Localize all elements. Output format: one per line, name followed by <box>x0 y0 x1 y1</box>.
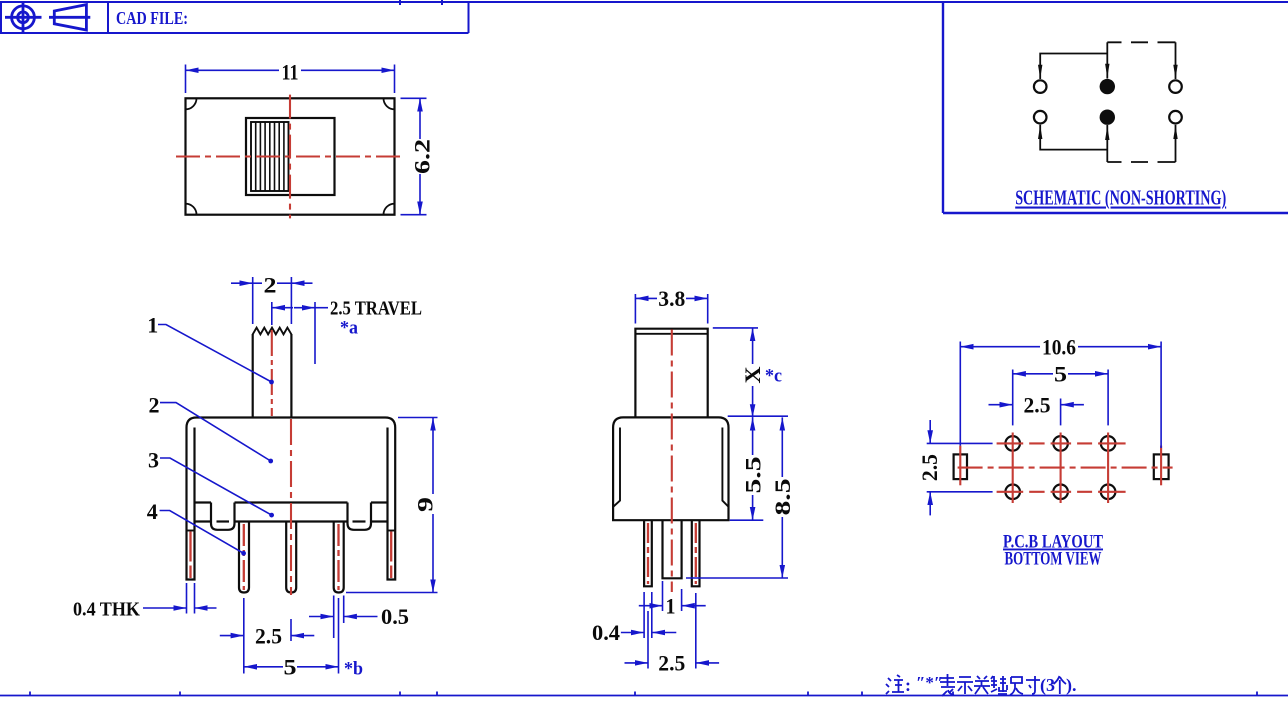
dim 9 arrows <box>432 418 434 495</box>
side main centerline red <box>671 330 673 593</box>
dim 5.5 arrows <box>752 417 754 455</box>
right mounting tab <box>388 531 396 580</box>
centerline horizontal (red) <box>176 155 405 157</box>
body side left inner edge <box>614 428 621 507</box>
svg-text:).: ). <box>1066 675 1077 696</box>
terminal 5 common filled bottom-center <box>1100 110 1115 125</box>
dim 0.5 ext lines <box>334 596 344 639</box>
svg-text:0.5: 0.5 <box>381 604 409 629</box>
top view body rectangle <box>186 98 395 214</box>
side pin center wide <box>663 520 682 578</box>
dim 2 arrows (outside) <box>231 282 253 284</box>
svg-text:*a: *a <box>340 318 358 339</box>
hole r1c2 <box>1053 436 1068 451</box>
wire top solid pole1 <box>1040 54 1107 80</box>
knob serration hatch <box>256 122 284 191</box>
dim 0.4 arrows <box>621 632 644 634</box>
wire top dashed alternate throw <box>1107 41 1175 43</box>
frame zone ticks bottom <box>30 692 1257 696</box>
wire bottom dashed alternate throw <box>1107 161 1175 163</box>
dim X ext line <box>713 327 758 329</box>
red col line c1 <box>1012 433 1014 504</box>
pin 3 red centerline <box>337 524 339 590</box>
base plate top edge segments <box>195 501 388 503</box>
page top border <box>0 1 1288 3</box>
svg-text:2.5: 2.5 <box>1024 393 1051 418</box>
svg-text:2.5: 2.5 <box>917 454 942 481</box>
frame zone tick top B <box>441 0 443 5</box>
svg-text:1: 1 <box>147 313 158 338</box>
side pin left <box>644 520 652 586</box>
dim 11 extension lines <box>186 65 395 94</box>
right notch U <box>348 503 372 530</box>
arrow into terminal 3 <box>1173 65 1177 79</box>
dim 3.8 ext lines <box>635 294 707 324</box>
dim 8.5 arrows <box>781 417 783 477</box>
knob hatched cap <box>251 122 289 191</box>
hole r2c2 <box>1053 485 1068 500</box>
svg-text:CAD FILE:: CAD FILE: <box>116 8 188 28</box>
dim 1 arrows <box>639 605 663 607</box>
stem side outline <box>635 329 707 418</box>
dim 6.2 extension lines <box>401 98 427 214</box>
dim 0.4 THK ext lines <box>187 583 195 614</box>
cone frustum symbol <box>49 5 90 30</box>
dim 2 ext lines <box>253 277 292 324</box>
schematic frame border <box>943 2 1288 213</box>
dim 2.5 travel leader tail <box>315 307 328 309</box>
dim 2.5 vertical ref lines <box>927 443 993 491</box>
corner arc TL <box>186 98 197 109</box>
base plate bottom edge segments <box>195 520 388 522</box>
body right wall inner line <box>386 428 388 531</box>
body side right inner edge <box>722 428 728 507</box>
svg-text:3: 3 <box>148 448 159 473</box>
right tab red centerline <box>390 532 392 579</box>
title block box <box>0 2 469 33</box>
red center axis <box>958 467 1173 469</box>
callout 2 leader <box>160 403 271 461</box>
dim 9 ext lines <box>346 418 438 593</box>
callout 4 leader <box>160 511 244 554</box>
svg-text:5: 5 <box>284 655 297 680</box>
arrow into terminal 6 <box>1173 125 1177 139</box>
char 注 <box>886 675 904 694</box>
third-angle projection symbol <box>5 2 42 32</box>
char 寸 <box>1026 676 1040 694</box>
dim 2.5 arrows <box>220 635 244 637</box>
knob opening rect <box>246 118 335 195</box>
slot right <box>1154 454 1169 479</box>
svg-text:*b: *b <box>344 659 363 680</box>
svg-text:″*″: ″*″ <box>916 673 943 692</box>
left tab step line <box>187 530 195 532</box>
dim X arrows <box>752 328 754 364</box>
svg-text:8.5: 8.5 <box>770 479 795 516</box>
stem knurled top (zigzag) <box>253 328 292 335</box>
svg-text:0.4 THK: 0.4 THK <box>73 599 140 621</box>
side pin right red centerline <box>695 523 697 584</box>
wire right vertical to terminal 6 <box>1175 125 1177 162</box>
svg-text:BOTTOM VIEW: BOTTOM VIEW <box>1005 549 1102 570</box>
dim 2.5 vertical arrows <box>929 420 931 443</box>
svg-text:X: X <box>740 366 765 383</box>
svg-text:2.5: 2.5 <box>255 624 282 649</box>
wire right vertical to terminal 3 <box>1175 42 1177 79</box>
svg-text:0.4: 0.4 <box>592 620 620 645</box>
dim 2 inner segment <box>277 282 291 284</box>
svg-text:6.2: 6.2 <box>410 139 435 174</box>
svg-text::: : <box>905 675 911 695</box>
pin 3 (right) front <box>334 522 344 593</box>
svg-text:3.8: 3.8 <box>658 286 685 311</box>
red slot axis right <box>1160 446 1162 486</box>
red col line c3 <box>1107 433 1109 504</box>
svg-text:2.5: 2.5 <box>658 651 685 676</box>
dim 5 <box>1013 373 1053 375</box>
dim 11 lines with arrows <box>186 69 280 71</box>
body side outline <box>613 417 728 520</box>
dim 0.4 ext lines <box>644 592 652 638</box>
dim 5 arrows <box>244 666 283 668</box>
dim 2.5 travel arrows <box>272 307 293 309</box>
svg-text:11: 11 <box>282 60 299 85</box>
callout 3 leader <box>160 458 272 515</box>
body bottom ext line <box>730 519 764 521</box>
left tab red centerline <box>189 532 191 579</box>
svg-text:2: 2 <box>264 273 277 298</box>
dim 2.5 ext line <box>1060 399 1062 426</box>
char 键 <box>991 676 1007 694</box>
svg-text:5: 5 <box>1054 362 1067 387</box>
right tab step line <box>388 530 396 532</box>
red slot axis left <box>959 446 961 486</box>
svg-text:4: 4 <box>147 499 158 524</box>
arrow into terminal 2 <box>1105 64 1109 78</box>
hole r1c3 <box>1101 436 1116 451</box>
dim 2.5 travel ext lines <box>272 302 315 364</box>
body outline with rounded shoulders <box>187 418 396 531</box>
centerline vertical (red) <box>289 95 291 219</box>
hole r2c1 <box>1005 485 1020 500</box>
dim 2.5 arrows <box>625 662 649 664</box>
svg-text:(3: (3 <box>1040 675 1055 696</box>
dim 0.5 arrows <box>309 616 334 618</box>
dim 6.2 lines with arrows <box>419 98 421 139</box>
pin 1 (left) front <box>239 522 249 593</box>
terminal 4 open circle bottom-left <box>1034 111 1047 124</box>
wire top center vertical <box>1106 42 1108 78</box>
slot left <box>954 454 967 479</box>
wire bottom center vertical <box>1106 125 1108 162</box>
body top ext line <box>728 415 788 417</box>
svg-text:2: 2 <box>149 393 160 418</box>
dim 2.5 ext lines <box>244 598 291 674</box>
svg-text:9: 9 <box>413 497 438 512</box>
svg-text:10.6: 10.6 <box>1042 335 1076 360</box>
corner arc BL <box>186 204 197 215</box>
dim 2.5 ext lines <box>648 593 696 669</box>
callout 1 leader <box>158 325 272 383</box>
terminal 1 open circle top-left <box>1034 80 1047 93</box>
pin 2 (center) front <box>286 522 296 593</box>
wire bottom solid pole2 <box>1040 125 1107 150</box>
stem top face line <box>635 333 707 335</box>
svg-text:SCHEMATIC (NON-SHORTING): SCHEMATIC (NON-SHORTING) <box>1015 186 1226 210</box>
char 表 <box>940 674 955 696</box>
arrow into terminal 5 <box>1105 126 1109 140</box>
red col line c2 <box>1060 433 1062 504</box>
char 个 <box>1054 676 1067 694</box>
frame zone tick top A <box>399 0 401 5</box>
arrow into terminal 4 <box>1038 125 1042 139</box>
svg-text:5.5: 5.5 <box>741 457 766 494</box>
left mounting tab <box>187 531 195 580</box>
dim 3.8 arrows <box>635 297 657 299</box>
dim 5 ext lines <box>1013 370 1108 426</box>
char 示 <box>957 677 973 694</box>
svg-text:2.5 TRAVEL: 2.5 TRAVEL <box>330 298 422 320</box>
terminal 3 open circle top-right <box>1169 80 1182 93</box>
terminal 6 open circle bottom-right <box>1169 111 1182 124</box>
terminal 2 common filled top-center <box>1100 79 1115 94</box>
dim 0.4 THK arrows <box>143 607 187 609</box>
pin bottom ext line <box>686 577 788 579</box>
dim 10.6 ext lines <box>960 342 1161 449</box>
hole r2c3 <box>1101 485 1116 500</box>
side pin right <box>692 520 700 586</box>
red row line 1 <box>997 442 1126 444</box>
dim 1 ext lines <box>663 581 682 611</box>
char 尺 <box>1010 677 1023 695</box>
hole r1c1 <box>1005 436 1020 451</box>
svg-text:1: 1 <box>666 594 676 619</box>
pin 1 red centerline <box>243 524 245 590</box>
body left wall inner line <box>193 428 195 531</box>
corner arc TR <box>384 98 395 109</box>
stem centerline red <box>271 330 273 416</box>
dim 5 ext line right <box>338 598 340 674</box>
dim 10.6 <box>960 346 1040 348</box>
main vertical centerline red <box>290 419 292 595</box>
corner arc BR <box>384 204 395 215</box>
arrow into terminal 1 <box>1038 65 1042 79</box>
char 关 <box>974 676 990 694</box>
stem sides <box>252 334 254 418</box>
svg-text:*c: *c <box>765 366 782 387</box>
side pin left red centerline <box>647 523 649 584</box>
dim 2.5 arrows <box>989 404 1013 406</box>
page bottom frame line <box>0 695 1288 697</box>
left notch U <box>211 503 235 530</box>
red row line 2 <box>997 491 1126 493</box>
